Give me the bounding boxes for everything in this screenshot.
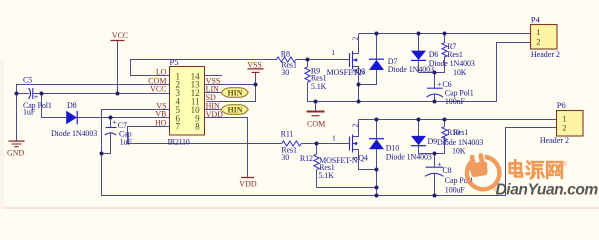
- svg-text:COM: COM: [307, 119, 325, 128]
- svg-text:P5: P5: [170, 57, 179, 67]
- svg-text:R11: R11: [281, 129, 294, 138]
- svg-text:Q4: Q4: [358, 154, 368, 163]
- svg-text:2: 2: [536, 36, 540, 46]
- svg-text:5.1K: 5.1K: [319, 171, 335, 180]
- svg-text:1: 1: [332, 133, 336, 142]
- svg-text:Header 2: Header 2: [540, 136, 569, 145]
- svg-text:+: +: [34, 93, 39, 102]
- svg-text:+: +: [437, 160, 442, 169]
- svg-text:VB: VB: [155, 110, 166, 119]
- svg-text:IR2110: IR2110: [168, 137, 190, 146]
- svg-text:HIN: HIN: [227, 89, 242, 98]
- svg-text:Diode 1N4003: Diode 1N4003: [437, 138, 483, 147]
- svg-text:C5: C5: [23, 76, 32, 85]
- svg-text:D6: D6: [429, 50, 439, 59]
- svg-text:2: 2: [351, 124, 360, 128]
- svg-text:VCC: VCC: [112, 31, 128, 40]
- svg-text:VCC: VCC: [150, 85, 166, 94]
- svg-text:Res1: Res1: [447, 50, 463, 59]
- svg-text:8: 8: [195, 122, 200, 132]
- svg-text:1: 1: [536, 27, 540, 37]
- svg-text:LO: LO: [156, 68, 167, 77]
- svg-text:100uF: 100uF: [445, 186, 466, 195]
- svg-text:Diode 1N4003: Diode 1N4003: [386, 152, 432, 161]
- svg-text:Res1: Res1: [453, 128, 469, 137]
- svg-text:1uF: 1uF: [120, 137, 133, 146]
- svg-text:VDD: VDD: [239, 179, 257, 188]
- svg-text:HO: HO: [155, 119, 167, 128]
- svg-text:30: 30: [281, 68, 289, 77]
- svg-text:Diode 1N4003: Diode 1N4003: [429, 59, 475, 68]
- svg-text:1: 1: [331, 48, 335, 57]
- svg-text:+: +: [437, 80, 442, 89]
- svg-text:VDD: VDD: [206, 110, 224, 119]
- svg-text:®: ®: [563, 161, 568, 168]
- svg-text:5.1K: 5.1K: [311, 82, 327, 91]
- svg-text:HIN: HIN: [227, 106, 242, 115]
- svg-text:D10: D10: [386, 143, 400, 152]
- svg-text:1uF: 1uF: [23, 108, 36, 117]
- svg-text:D9: D9: [428, 137, 438, 146]
- svg-text:2: 2: [562, 123, 566, 133]
- svg-text:10K: 10K: [452, 147, 466, 156]
- svg-text:2: 2: [351, 37, 360, 41]
- svg-text:7: 7: [176, 122, 181, 132]
- svg-text:R12: R12: [300, 154, 313, 163]
- svg-text:C8: C8: [442, 166, 451, 175]
- svg-text:GND: GND: [7, 149, 25, 158]
- svg-text:DianYuan.com: DianYuan.com: [496, 182, 599, 199]
- svg-text:3: 3: [351, 157, 360, 161]
- svg-text:Header 2: Header 2: [531, 50, 560, 59]
- svg-text:D8: D8: [67, 101, 77, 110]
- svg-text:P4: P4: [531, 15, 541, 25]
- svg-text:30: 30: [281, 153, 289, 162]
- svg-text:10K: 10K: [453, 68, 467, 77]
- svg-text:R8: R8: [281, 49, 290, 58]
- svg-text:Diode 1N4003: Diode 1N4003: [51, 129, 97, 138]
- svg-text:100nF: 100nF: [445, 97, 466, 106]
- svg-text:P6: P6: [557, 100, 566, 110]
- svg-text:Diode 1N4003: Diode 1N4003: [388, 65, 434, 74]
- svg-text:3: 3: [351, 70, 360, 74]
- svg-text:VSS: VSS: [247, 60, 262, 69]
